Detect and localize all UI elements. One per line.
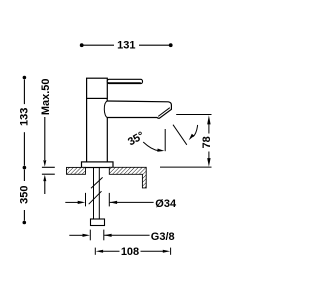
- spout root fillet arc: [104, 101, 107, 118]
- countertop cross-section right of faucet with front edge leg, hatched: [109, 167, 146, 188]
- svg-text:108: 108: [121, 246, 139, 258]
- faucet body column: [87, 98, 108, 162]
- supply hose shank double line: [94, 168, 100, 220]
- dimension G3/8 thread connection: [69, 230, 174, 244]
- aerator face inner line: [158, 108, 170, 117]
- faucet handle cartridge block: [87, 78, 108, 98]
- dimension diameter 34 mounting hole: [65, 193, 177, 210]
- countertop cross-section left of faucet, hatched: [67, 167, 86, 174]
- dimension 350 hose length, dot endpoints: [19, 170, 31, 225]
- hose end fitting: [91, 219, 105, 226]
- svg-text:131: 131: [117, 39, 135, 51]
- svg-text:78: 78: [201, 136, 213, 148]
- dimension 78 spout height: [201, 115, 213, 167]
- angle leader arc with arrow to vertical ray: [143, 142, 164, 152]
- svg-text:G3/8: G3/8: [151, 231, 175, 243]
- vertical reference ray: [164, 129, 166, 151]
- hose break slash upper: [91, 177, 103, 188]
- spout tip level extension line: [176, 114, 211, 116]
- dimension Max.50 counter thickness with facing arrows: [40, 78, 55, 194]
- dimension 108 spout reach: [95, 246, 170, 258]
- dimension 131 overall width, dot endpoints: [80, 39, 173, 51]
- angle arc arrow to stream ray: [189, 125, 198, 140]
- svg-text:Ø34: Ø34: [155, 198, 177, 210]
- svg-text:Max.50: Max.50: [40, 78, 52, 115]
- counter level extension line: [160, 166, 212, 168]
- base flange plate: [82, 162, 114, 168]
- dimension 133 height above counter, dot endpoints: [19, 76, 31, 170]
- faucet lever handle: [107, 79, 142, 83]
- svg-text:350: 350: [19, 186, 31, 204]
- hose break slash lower: [89, 191, 102, 204]
- spout outline with slanted aerator end: [107, 101, 171, 118]
- water stream ray at 35 degrees: [173, 125, 187, 145]
- svg-text:133: 133: [19, 108, 31, 126]
